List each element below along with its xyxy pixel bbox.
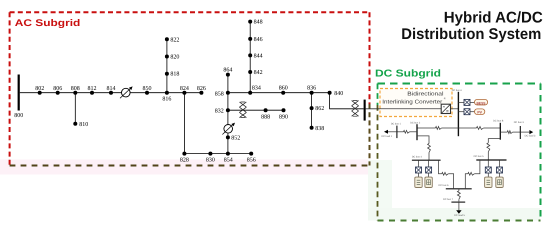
node 806 bbox=[56, 91, 60, 95]
voltage regulator 852-832 bbox=[224, 125, 233, 134]
node 844 bbox=[248, 53, 252, 57]
node 842 bbox=[248, 70, 252, 74]
svg-text:854: 854 bbox=[224, 158, 233, 164]
svg-text:802: 802 bbox=[35, 86, 44, 92]
bus4 drop 1 converter bbox=[418, 160, 420, 167]
svg-text:DC bus 1: DC bus 1 bbox=[391, 123, 402, 126]
bus5 drop 2 converter bbox=[499, 160, 501, 167]
PV box bbox=[475, 109, 485, 115]
node 850 bbox=[145, 91, 149, 95]
node 888 bbox=[264, 108, 268, 112]
svg-text:812: 812 bbox=[88, 86, 97, 92]
svg-text:PV: PV bbox=[477, 111, 482, 115]
AC subgrid dashed border right lower bbox=[369, 104, 371, 166]
wire 824-828 bbox=[183, 93, 185, 154]
resistor B-3 bbox=[507, 131, 512, 134]
node 856 bbox=[249, 152, 253, 156]
wire through orange box bbox=[380, 108, 441, 110]
arrow DC load 1 bbox=[384, 130, 388, 134]
wire bus2 to busA bbox=[417, 127, 436, 129]
node 836 bbox=[310, 91, 314, 95]
node 860 bbox=[281, 91, 285, 95]
svg-text:DC bus B: DC bus B bbox=[493, 119, 504, 122]
node 848 bbox=[248, 20, 252, 24]
DC bus 3 bbox=[519, 126, 521, 139]
resistor 1-2 bbox=[404, 130, 410, 133]
svg-text:888: 888 bbox=[261, 115, 270, 121]
svg-text:DC bus 2: DC bus 2 bbox=[410, 121, 421, 124]
transformer XFM-1 832-888 bbox=[241, 102, 246, 118]
AC subgrid dashed border right upper bbox=[369, 12, 371, 104]
node 832 bbox=[226, 108, 230, 112]
svg-text:806: 806 bbox=[53, 86, 62, 92]
resistor bus6-bus7 bbox=[458, 189, 460, 191]
svg-text:850: 850 bbox=[143, 86, 152, 92]
svg-text:890: 890 bbox=[279, 115, 288, 121]
svg-text:842: 842 bbox=[254, 70, 263, 76]
svg-text:DC bus A: DC bus A bbox=[452, 89, 463, 92]
wire 836-838 bbox=[311, 93, 313, 128]
svg-text:852: 852 bbox=[231, 135, 240, 141]
svg-text:4: 4 bbox=[444, 97, 446, 101]
resistor line A-B bbox=[477, 127, 484, 130]
DC subgrid dashed border left lower bbox=[377, 105, 379, 221]
AC subgrid dashed border left bbox=[9, 12, 11, 165]
resistor bus2-bus4 bbox=[428, 144, 431, 153]
svg-text:DC bus 5: DC bus 5 bbox=[474, 155, 485, 158]
svg-text:DC Subgrid: DC Subgrid bbox=[375, 68, 441, 79]
node 802 bbox=[38, 91, 42, 95]
svg-text:DC bus 7: DC bus 7 bbox=[443, 198, 454, 201]
wire bus2 to bus1 bbox=[410, 131, 418, 133]
svg-text:840: 840 bbox=[334, 91, 343, 97]
wire bus5 to bus6 bbox=[474, 160, 480, 174]
svg-text:824: 824 bbox=[180, 86, 189, 92]
node 808 bbox=[73, 91, 77, 95]
wire bus4 to bus6 bbox=[439, 160, 442, 174]
node 830 bbox=[208, 152, 212, 156]
orange box bidirectional interlinking converter bbox=[380, 89, 452, 117]
svg-text:822: 822 bbox=[170, 37, 179, 43]
wire 832-890 bbox=[228, 109, 284, 111]
DC bus A bbox=[457, 92, 459, 136]
svg-text:DC bus 6: DC bus 6 bbox=[439, 184, 450, 187]
voltage regulator 814-850 bbox=[122, 88, 131, 97]
svg-text:Distribution System: Distribution System bbox=[401, 26, 541, 43]
node 810 bbox=[73, 122, 77, 126]
node 840 bbox=[328, 91, 332, 95]
svg-text:826: 826 bbox=[197, 86, 206, 92]
svg-text:856: 856 bbox=[247, 158, 256, 164]
wire main feeder 800-826 bbox=[20, 92, 202, 94]
svg-text:DC load 1: DC load 1 bbox=[381, 135, 392, 138]
wire busB stub to bus5 bbox=[488, 139, 500, 143]
svg-text:Bidirectional: Bidirectional bbox=[407, 90, 443, 97]
svg-text:AC Subgrid: AC Subgrid bbox=[15, 18, 81, 29]
wire bus A to BESS converter bbox=[458, 101, 464, 103]
svg-text:816: 816 bbox=[162, 97, 171, 103]
node 814 bbox=[109, 91, 113, 95]
wire 854-864 vertical bbox=[227, 75, 229, 154]
wire transformer to converter bbox=[366, 108, 442, 110]
svg-text:858: 858 bbox=[215, 92, 224, 98]
svg-text:800: 800 bbox=[14, 113, 23, 119]
wire bus A to PV converter bbox=[458, 111, 464, 113]
node 890 bbox=[282, 108, 286, 112]
node 838 bbox=[310, 126, 314, 130]
mint band background bbox=[368, 160, 392, 221]
converter PV bbox=[464, 109, 470, 115]
wire 834-848 bbox=[249, 22, 251, 93]
bus4 drop 2 converter bbox=[428, 160, 430, 167]
DC bus B bbox=[499, 123, 501, 140]
svg-text:BESS: BESS bbox=[477, 101, 487, 105]
node 864 bbox=[226, 73, 230, 77]
svg-text:808: 808 bbox=[71, 86, 80, 92]
BESS box bbox=[475, 99, 488, 105]
wire 840 to interlink transformer bbox=[330, 93, 364, 109]
node 822 bbox=[165, 37, 169, 41]
DC subgrid dashed border bottom bbox=[378, 220, 541, 222]
wire 858-840 bbox=[228, 92, 330, 94]
wire bus2 stub to bus4 bbox=[417, 136, 429, 144]
node 816 bbox=[165, 91, 169, 95]
svg-text:DC load 5: DC load 5 bbox=[454, 214, 465, 217]
svg-text:DC bus 3: DC bus 3 bbox=[514, 121, 525, 124]
svg-text:DC load 3: DC load 3 bbox=[525, 135, 536, 138]
svg-text:862: 862 bbox=[315, 106, 324, 112]
svg-text:Hybrid AC/DC: Hybrid AC/DC bbox=[444, 9, 543, 26]
svg-text:828: 828 bbox=[180, 158, 189, 164]
bus4 source box 2 bbox=[425, 177, 432, 187]
interlinking converter U-BIC bbox=[441, 104, 450, 113]
svg-text:830: 830 bbox=[206, 158, 215, 164]
AC/DC boundary bus bar bbox=[364, 100, 366, 121]
resistor busB-bus5 bbox=[487, 143, 490, 152]
bus4 source box 1 bbox=[415, 177, 422, 187]
DC subgrid dashed border top bbox=[378, 83, 541, 85]
svg-text:844: 844 bbox=[254, 54, 263, 60]
svg-text:820: 820 bbox=[170, 55, 179, 61]
substation source bus 800 bbox=[18, 75, 20, 111]
transformer AC/DC interlink bbox=[353, 101, 358, 117]
svg-text:DC bus 4: DC bus 4 bbox=[412, 155, 423, 158]
AC subgrid dashed border top bbox=[10, 11, 370, 13]
node 846 bbox=[248, 37, 252, 41]
svg-text:846: 846 bbox=[254, 37, 263, 43]
svg-text:848: 848 bbox=[254, 20, 263, 26]
svg-text:838: 838 bbox=[315, 126, 324, 132]
node 818 bbox=[165, 72, 169, 76]
svg-text:Interlinking Converter: Interlinking Converter bbox=[382, 99, 442, 106]
DC bus 6 bbox=[446, 188, 472, 190]
pink band background bbox=[0, 160, 368, 175]
DC bus 5 bbox=[476, 159, 506, 161]
svg-text:818: 818 bbox=[170, 72, 179, 78]
node 858 bbox=[226, 91, 230, 95]
AC subgrid dashed border bottom bbox=[10, 165, 370, 167]
arrow DC load 5 bbox=[456, 210, 461, 213]
bus5 source box 2 bbox=[496, 177, 503, 187]
wire 808-810 bbox=[74, 93, 76, 124]
DC bus 1 bbox=[396, 126, 398, 139]
svg-text:860: 860 bbox=[279, 85, 288, 91]
resistor line 2-A bbox=[436, 127, 442, 130]
DC bus 7 bbox=[451, 201, 465, 203]
svg-text:834: 834 bbox=[252, 85, 261, 91]
DC bus 2 bbox=[416, 124, 418, 140]
wire busB to bus3 bbox=[500, 131, 507, 133]
bus5 source box 1 bbox=[485, 177, 492, 187]
wire bottom 828-856 bbox=[184, 153, 251, 155]
svg-text:864: 864 bbox=[223, 67, 232, 73]
svg-text:810: 810 bbox=[79, 122, 88, 128]
wire converter to DC bus A bbox=[451, 108, 459, 110]
DC subgrid dashed border right bbox=[540, 84, 542, 221]
node 820 bbox=[165, 55, 169, 59]
svg-text:836: 836 bbox=[307, 85, 316, 91]
node 824 bbox=[182, 91, 186, 95]
wire 816-822 bbox=[166, 39, 168, 92]
node 812 bbox=[90, 91, 94, 95]
node 828 bbox=[182, 152, 186, 156]
node 862 bbox=[310, 106, 314, 110]
arrow DC load 2 bbox=[529, 130, 533, 134]
wire busA to busB bbox=[458, 127, 476, 129]
svg-text:814: 814 bbox=[107, 86, 116, 92]
bus5 drop 1 converter bbox=[487, 160, 489, 167]
node 826 bbox=[199, 91, 203, 95]
node 852 bbox=[226, 135, 230, 139]
svg-text:832: 832 bbox=[215, 108, 224, 114]
converter BESS bbox=[464, 99, 470, 105]
node 834 bbox=[248, 91, 252, 95]
DC subgrid dashed border left upper bbox=[377, 84, 379, 106]
DC bus 4 bbox=[412, 159, 441, 161]
node 854 bbox=[226, 152, 230, 156]
